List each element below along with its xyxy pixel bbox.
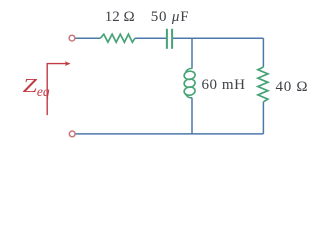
wire capacitor-to-topright corner [173,37,263,39]
terminal bottom [69,131,75,137]
capacitor C 50uF right plate [171,29,173,49]
wire bottom [75,133,264,135]
svg-text:60 mH: 60 mH [202,77,246,93]
wire top-left segment [75,37,101,39]
wire resistor-to-capacitor [135,37,166,39]
resistor R 40ohm [258,67,268,102]
capacitor C 50uF left plate [166,29,168,49]
wire right branch top [262,38,264,67]
terminal top [69,35,75,41]
resistor R 12ohm [100,34,135,42]
svg-text:40 Ω: 40 Ω [276,79,309,95]
svg-text:eq: eq [37,84,50,99]
svg-text:12 Ω: 12 Ω [105,9,135,25]
wire middle branch bottom [191,98,193,134]
svg-text:50 μF: 50 μF [151,9,190,25]
svg-text:Z: Z [23,75,38,97]
wire middle branch top [191,38,193,68]
arrow Zeq [47,64,66,116]
inductor L 60mH coil [184,68,196,97]
wire right branch bottom [262,102,264,134]
